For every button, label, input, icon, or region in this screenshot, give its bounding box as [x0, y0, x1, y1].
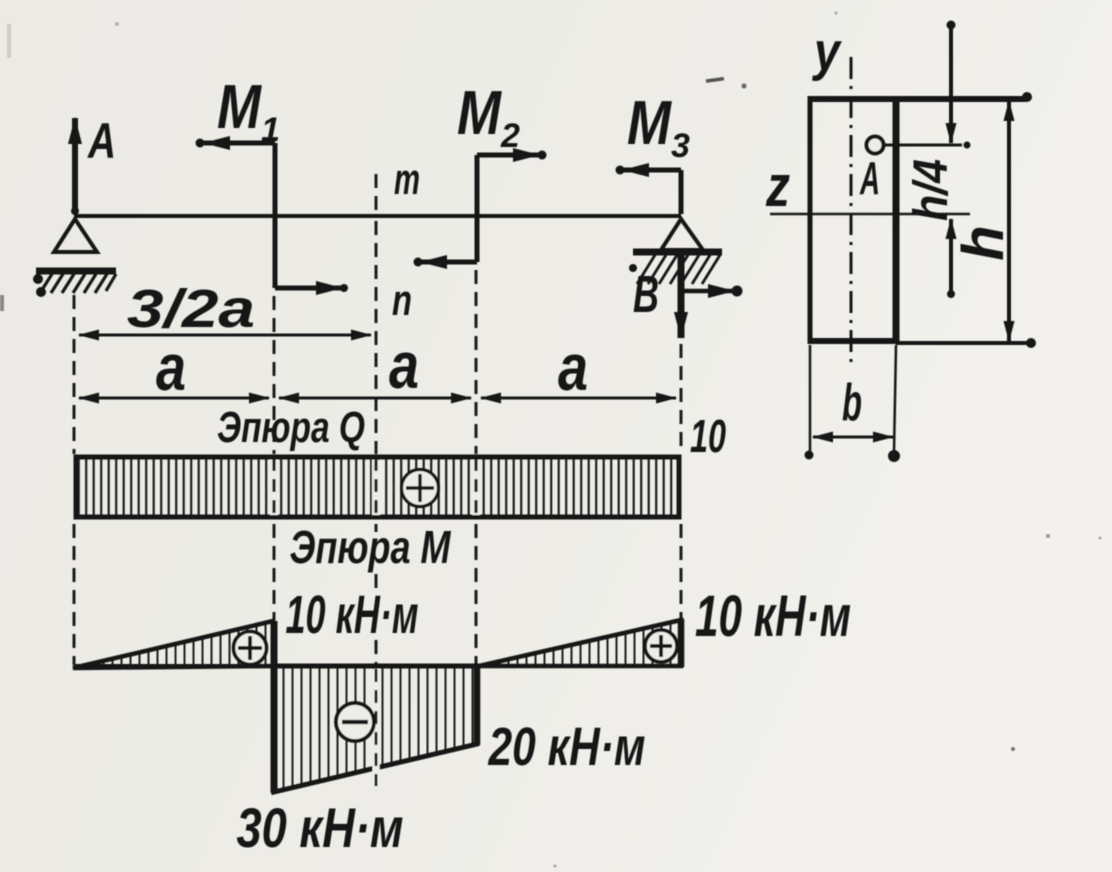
svg-text:n: n — [392, 276, 412, 325]
svg-text:b: b — [842, 374, 862, 432]
svg-text:10: 10 — [690, 410, 726, 462]
svg-text:a: a — [558, 330, 588, 404]
svg-text:M: M — [217, 73, 262, 142]
svg-text:m: m — [394, 155, 420, 204]
svg-text:M: M — [627, 89, 672, 158]
svg-text:30 кН·м: 30 кН·м — [237, 796, 404, 859]
svg-text:M: M — [457, 79, 502, 148]
svg-text:2: 2 — [500, 117, 520, 155]
svg-text:y: y — [811, 22, 842, 82]
svg-text:B: B — [633, 266, 659, 324]
svg-text:3: 3 — [671, 127, 690, 165]
svg-text:a: a — [389, 328, 419, 402]
svg-text:h: h — [951, 225, 1016, 260]
svg-text:3/2a: 3/2a — [127, 279, 255, 339]
svg-text:10 кН·м: 10 кН·м — [695, 584, 851, 649]
svg-text:A: A — [859, 152, 880, 204]
svg-text:Эпюра M: Эпюра M — [290, 521, 452, 573]
svg-text:1: 1 — [261, 111, 280, 149]
svg-text:a: a — [156, 330, 186, 404]
svg-text:10 кН·м: 10 кН·м — [286, 585, 419, 645]
svg-text:z: z — [765, 154, 790, 219]
svg-text:h/4: h/4 — [905, 159, 958, 221]
svg-text:A: A — [86, 113, 116, 169]
svg-text:20 кН·м: 20 кН·м — [488, 717, 646, 777]
svg-text:Эпюра Q: Эпюра Q — [217, 403, 365, 452]
